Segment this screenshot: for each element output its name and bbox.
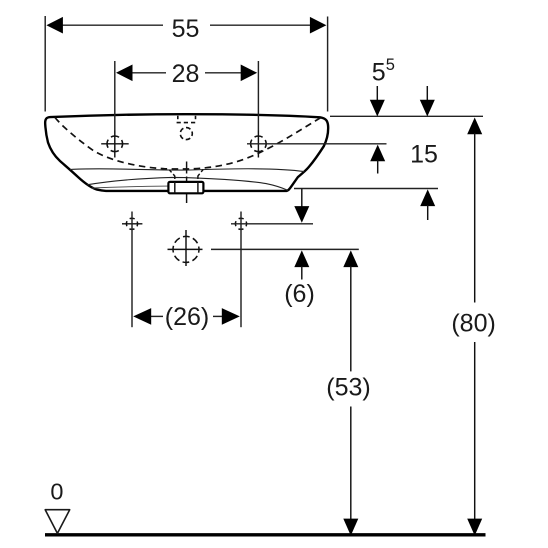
dimension (26): extension line left xyxy=(131,212,133,328)
top edge reference line (right) xyxy=(330,115,483,117)
fixing bolt hole right (crosshair) xyxy=(235,218,246,229)
dimension (53): vertical line with arrows xyxy=(343,250,358,267)
dimension 5.5: lower arrow (up) xyxy=(370,145,385,162)
dimension (6): lower arrow (up) xyxy=(294,250,309,267)
siphon reference line (right) xyxy=(211,248,359,250)
floor line xyxy=(45,533,486,536)
dimension (26): arrow left xyxy=(133,308,151,325)
drain centerline xyxy=(186,162,188,204)
dimension (6): upper arrow (down) xyxy=(301,189,303,209)
dimension 55: arrow left xyxy=(46,17,63,34)
washbasin outline xyxy=(45,114,328,191)
tap hole right (crosshair) xyxy=(251,131,267,158)
bolt hole reference line (right) xyxy=(231,223,313,225)
drain funnel hidden slants xyxy=(169,169,203,182)
dimension 55: extension line left xyxy=(44,16,46,112)
overflow slot (hidden, dashed rectangle) xyxy=(177,116,197,123)
basin underside rear edge (faint) xyxy=(92,186,168,188)
dimension 28: arrow left xyxy=(116,65,133,82)
dimension (26): arrow right xyxy=(222,308,240,325)
outlet reference line (right) xyxy=(294,188,438,190)
dimension 55: line xyxy=(62,24,163,26)
waste outlet box xyxy=(168,182,203,193)
fixing bolt hole left (crosshair) xyxy=(122,218,142,229)
dimension 28: extension line left xyxy=(114,61,116,131)
tap hole reference line (right) xyxy=(247,143,387,145)
overflow hole (dashed circle) xyxy=(180,128,192,140)
siphon (dashed circle crosshair) xyxy=(168,230,203,266)
svg-text:0: 0 xyxy=(50,479,63,505)
dimension 55: arrow right xyxy=(310,17,327,34)
svg-text:(80): (80) xyxy=(451,310,495,338)
dimension 28: arrow right xyxy=(241,65,258,82)
dimension 15: lower arrow (up) xyxy=(420,189,435,206)
svg-text:55: 55 xyxy=(172,15,200,43)
svg-text:28: 28 xyxy=(172,60,200,88)
svg-text:(6): (6) xyxy=(284,280,315,308)
svg-text:15: 15 xyxy=(410,141,438,169)
dimension (26): extension line right xyxy=(240,212,242,328)
waste outlet inner flange lines xyxy=(174,182,176,193)
dimension 5.5: upper arrow (down) xyxy=(376,86,378,102)
dimension 28: line xyxy=(131,72,166,74)
svg-text:(26): (26) xyxy=(165,303,209,331)
basin inner hidden edge (dashed catenary) xyxy=(55,118,321,170)
dimension (26): line with outward arrows xyxy=(150,315,163,317)
dimension 15: upper arrow (down) xyxy=(426,86,428,102)
datum triangle xyxy=(45,510,69,534)
svg-text:(53): (53) xyxy=(326,374,370,402)
basin underside front edge arc xyxy=(87,177,288,190)
tap hole left (crosshair) xyxy=(101,131,129,158)
dimension 55: extension line right xyxy=(327,17,329,112)
svg-text:5: 5 xyxy=(372,59,386,87)
dimension (80): vertical line with arrows xyxy=(467,118,482,135)
basin front inner rim line xyxy=(70,169,304,172)
svg-text:5: 5 xyxy=(386,56,395,74)
dimension 28: extension line right xyxy=(257,61,259,131)
